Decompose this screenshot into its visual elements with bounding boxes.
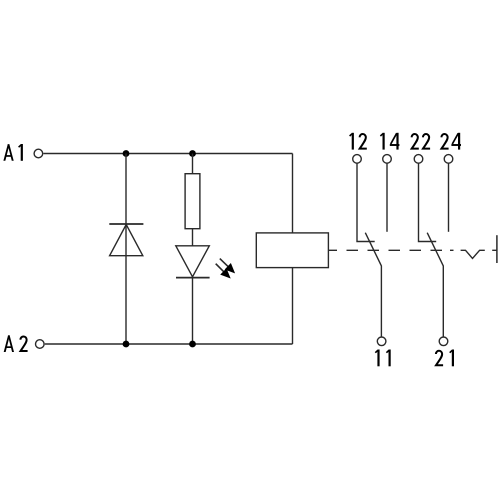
wire terminal 24 bbox=[448, 163, 450, 232]
terminal 14 circle bbox=[383, 155, 392, 164]
terminal label 14 bbox=[380, 133, 399, 150]
terminal label 24 bbox=[441, 133, 461, 150]
wire coil drop from A1 rail bbox=[292, 154, 294, 233]
diode D1 triangle bbox=[110, 225, 143, 256]
LED D2 triangle bbox=[176, 246, 210, 277]
LED light arrow 1 bbox=[220, 259, 234, 273]
terminal 24 circle bbox=[444, 155, 453, 164]
wire terminal 22 with NC tick bbox=[419, 163, 437, 241]
actuator end bar bbox=[496, 235, 498, 263]
terminal 12 circle bbox=[353, 155, 362, 164]
node junction A2/LED bbox=[189, 341, 196, 348]
terminal label 12 bbox=[350, 133, 367, 150]
diode D1 cathode bar bbox=[109, 223, 143, 225]
relay coil K1 bbox=[256, 233, 328, 268]
wire resistor to LED bbox=[192, 229, 194, 246]
wire LED branch upper bbox=[192, 154, 194, 174]
contact blade 11-12 bbox=[365, 233, 381, 337]
terminal label A1 bbox=[3, 144, 21, 161]
terminal A1 circle bbox=[34, 149, 43, 158]
wire coil to A2 rail bbox=[292, 268, 294, 344]
actuator V notch bbox=[461, 250, 485, 258]
terminal 22 circle bbox=[414, 155, 423, 164]
terminal 11 circle bbox=[377, 337, 386, 346]
wire A1 rail bbox=[43, 153, 292, 155]
terminal label A2 bbox=[4, 335, 28, 352]
terminal label 21 bbox=[436, 350, 453, 367]
terminal 21 circle bbox=[439, 337, 448, 346]
mechanical link dashed line bbox=[347, 249, 443, 251]
wire diode branch bbox=[125, 154, 127, 345]
terminal label 22 bbox=[412, 134, 431, 149]
wire A2 rail bbox=[45, 343, 293, 345]
wire terminal 12 with NC tick bbox=[357, 163, 375, 241]
actuator stub right bbox=[492, 249, 497, 251]
wire LED to A2 rail bbox=[192, 278, 194, 344]
terminal label 11 bbox=[375, 350, 389, 367]
contact blade 21-22 bbox=[427, 233, 443, 337]
wire coil actuator stub bbox=[328, 249, 337, 251]
node junction A2/diode bbox=[123, 341, 130, 348]
node junction A1/resistor bbox=[189, 150, 196, 157]
LED D2 cathode bar bbox=[176, 277, 210, 279]
wire terminal 14 bbox=[386, 163, 388, 232]
mechanical link short dash bbox=[450, 249, 454, 251]
node junction A1/diode bbox=[123, 150, 130, 157]
LED light arrow 2 bbox=[216, 264, 230, 278]
terminal A2 circle bbox=[36, 340, 45, 349]
resistor R1 bbox=[185, 174, 200, 229]
